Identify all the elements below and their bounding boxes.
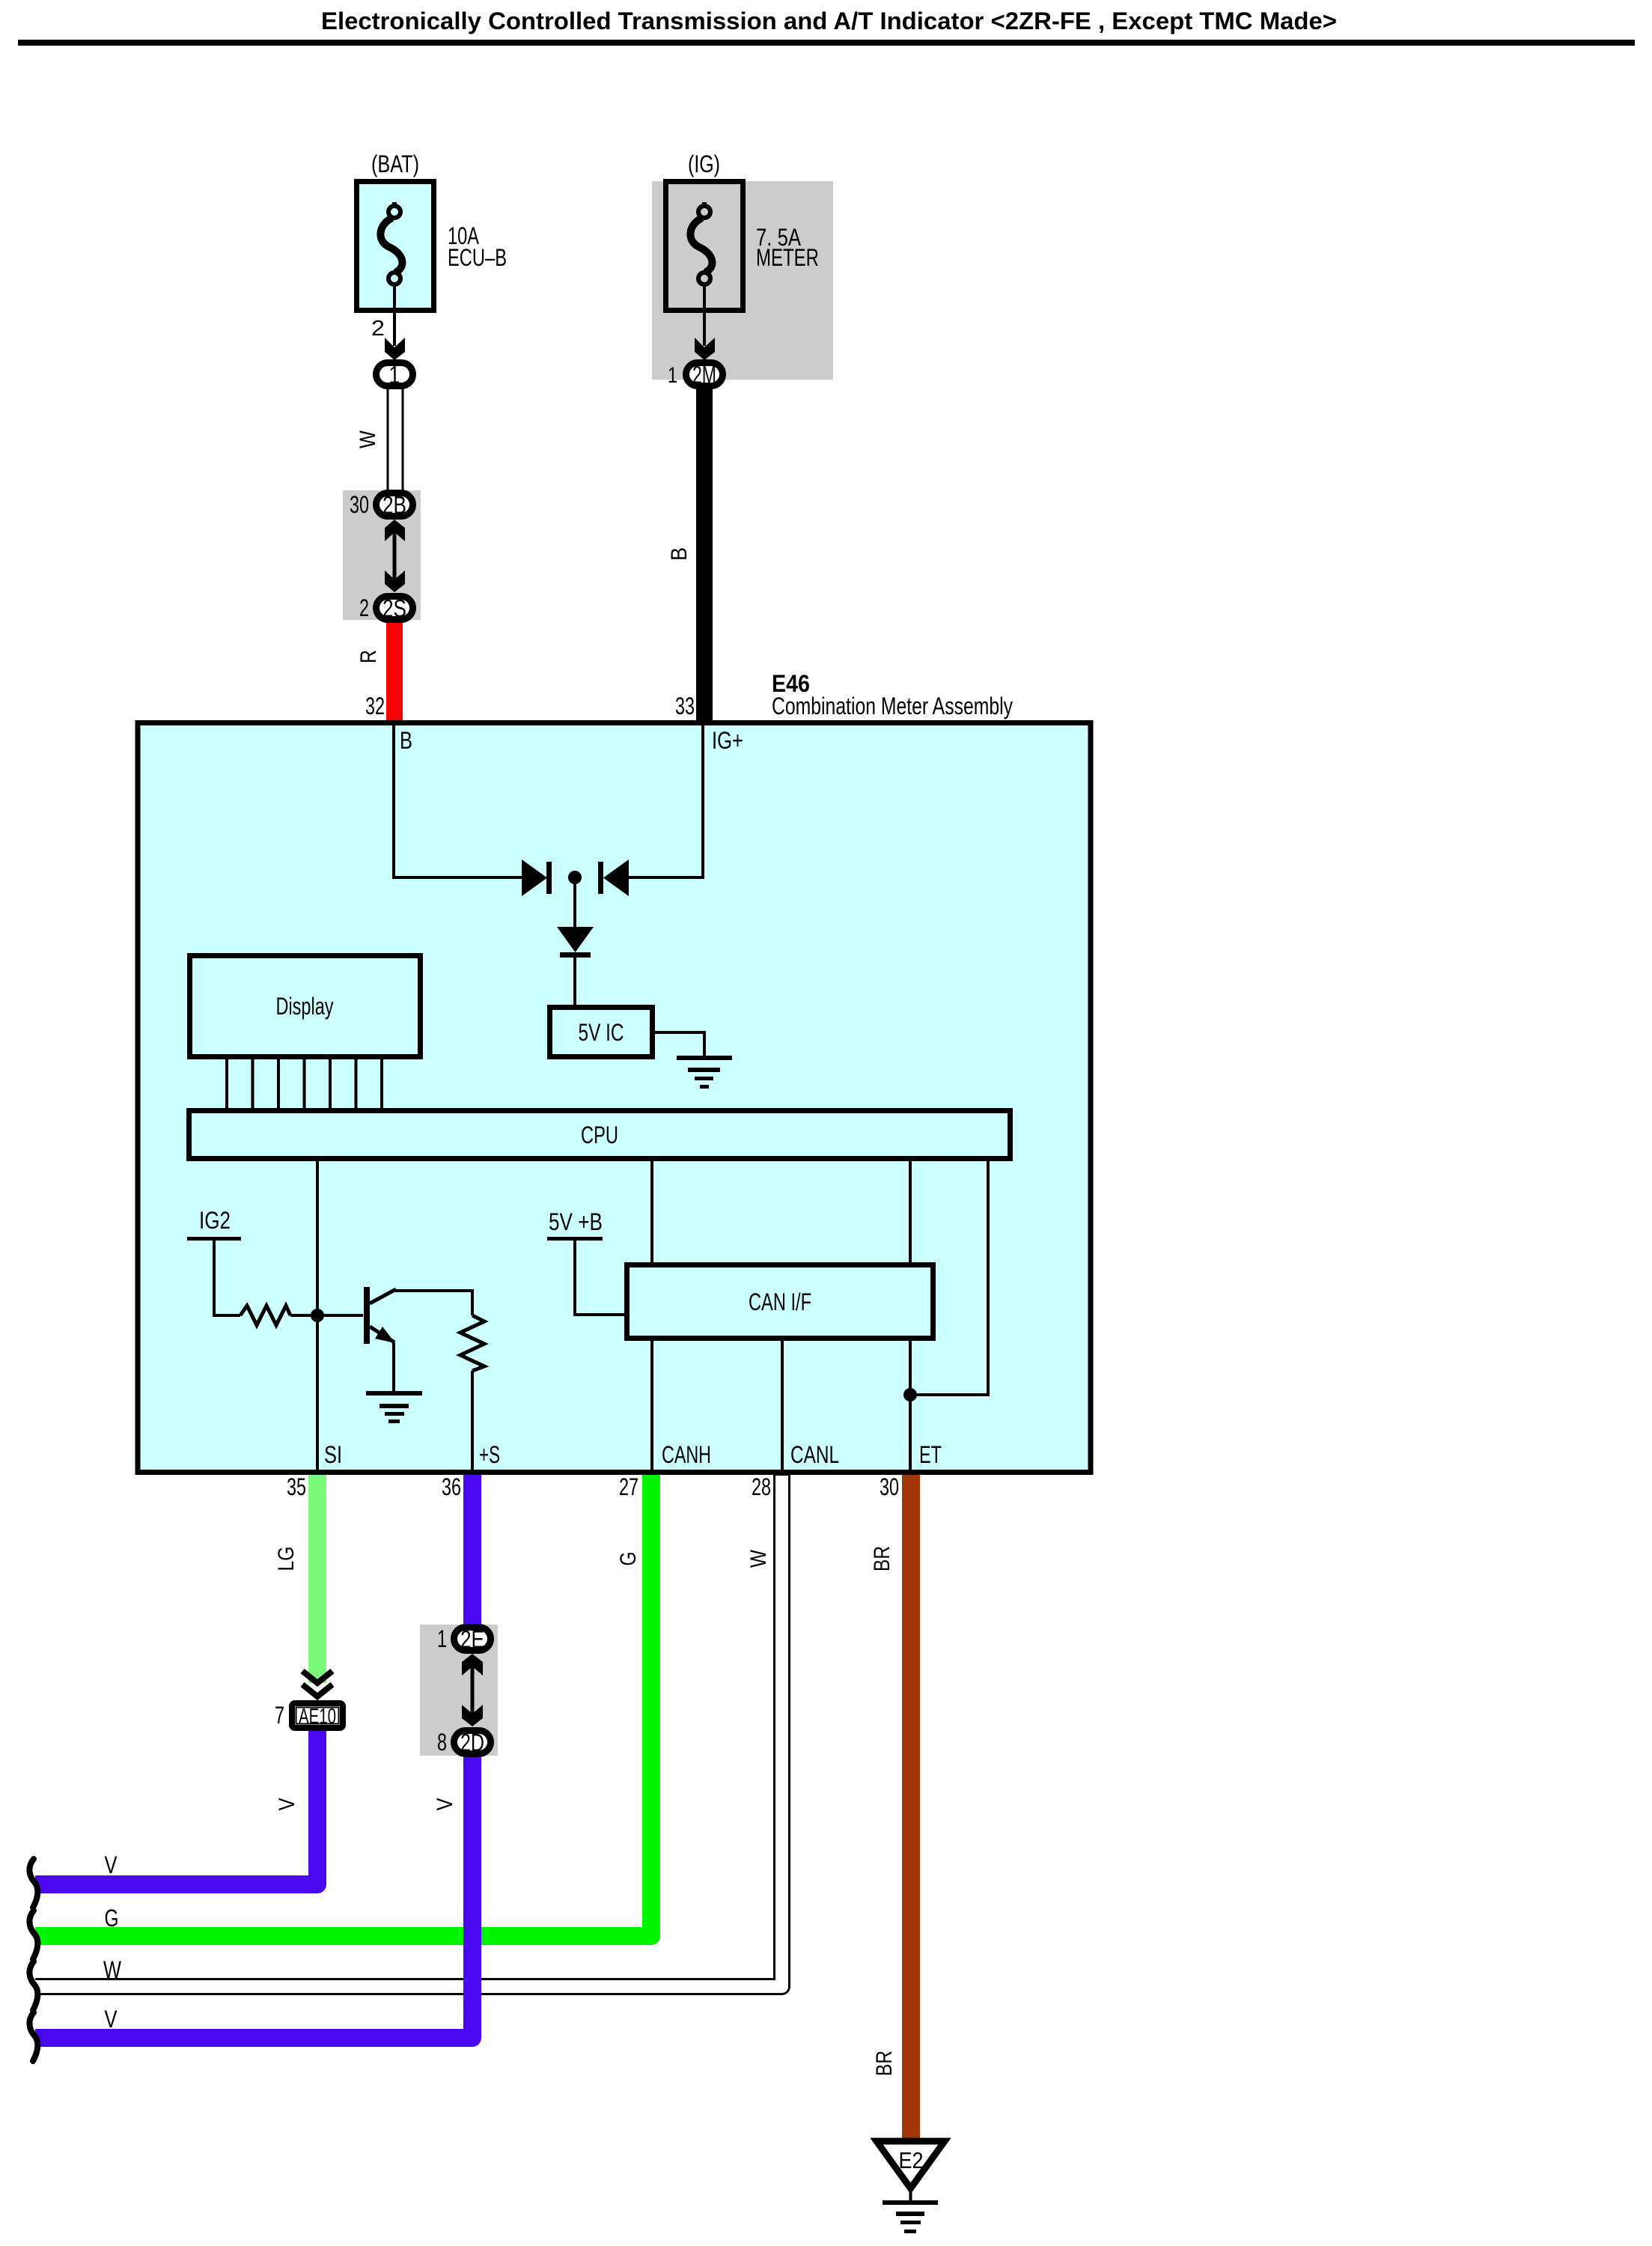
svg-text:Combination Meter Assembly: Combination Meter Assembly	[772, 693, 1013, 719]
wire CAN I/F to pin ET	[909, 1339, 912, 1470]
gray panel behind 2B/2S	[343, 490, 421, 620]
wire CPU right branch	[917, 1161, 988, 1395]
fuse ECU-B (BAT)	[357, 182, 434, 311]
wire V (violet) from AE10 to left edge	[35, 1729, 317, 1884]
svg-text:2E: 2E	[460, 1625, 484, 1653]
resistor R2	[460, 1315, 484, 1371]
svg-text:LG: LG	[274, 1547, 299, 1571]
wire from pin IG+ to diode D2	[627, 725, 703, 877]
wire break squiggle (V)	[29, 1859, 37, 1908]
svg-text:V: V	[433, 1798, 457, 1811]
svg-text:CPU: CPU	[581, 1122, 618, 1148]
node junction dot ET	[903, 1388, 917, 1402]
wire junction to diode D3	[573, 877, 576, 928]
wire 5V +B to CAN I/F	[575, 1241, 627, 1315]
wire node to transistor base	[317, 1314, 363, 1317]
connector 2S	[377, 594, 413, 622]
svg-text:IG2: IG2	[199, 1207, 231, 1234]
svg-text:Electronically Controlled Tran: Electronically Controlled Transmission a…	[321, 7, 1337, 34]
svg-text:2: 2	[371, 317, 385, 341]
connector AE10	[292, 1703, 343, 1729]
connector 1	[377, 361, 413, 389]
svg-text:+S: +S	[479, 1441, 500, 1468]
svg-text:B: B	[400, 727, 412, 754]
wire resistor to node	[290, 1314, 317, 1317]
ground (emitter)	[366, 1391, 422, 1423]
svg-text:5V +B: 5V +B	[549, 1208, 603, 1235]
wire CAN I/F to pin CANL	[781, 1339, 784, 1470]
wire IG2 to resistor R1	[214, 1241, 240, 1315]
svg-text:CAN I/F: CAN I/F	[749, 1288, 811, 1315]
connector 2D	[454, 1729, 491, 1756]
svg-text:V: V	[105, 1851, 118, 1878]
svg-text:SI: SI	[324, 1441, 342, 1468]
svg-text:33: 33	[675, 693, 695, 719]
combination meter assembly box E46	[138, 723, 1091, 1473]
arrow into connector 2M	[695, 338, 715, 360]
svg-text:8: 8	[437, 1729, 447, 1756]
wire SI from CPU to pin SI	[316, 1161, 319, 1470]
connector 2M	[686, 361, 723, 389]
gray panel behind IG fuse and 2M connector	[652, 181, 833, 380]
svg-text:2D: 2D	[460, 1729, 484, 1756]
svg-text:2M: 2M	[692, 361, 716, 389]
ground (5V IC)	[677, 1056, 732, 1089]
wire CPU to CAN I/F (ET)	[909, 1161, 912, 1265]
connector 2B	[377, 491, 413, 519]
svg-text:(BAT): (BAT)	[371, 150, 419, 177]
title: Electronically Controlled Transmission and A/T Indicator	[18, 7, 1635, 46]
wire break squiggle (G)	[29, 1911, 37, 1959]
wire fuse BAT to connector 1	[393, 284, 396, 346]
svg-text:G: G	[105, 1905, 119, 1932]
CPU block	[189, 1111, 1011, 1159]
svg-text:Display: Display	[276, 993, 334, 1020]
svg-text:ECU–B: ECU–B	[448, 244, 507, 271]
svg-text:B: B	[667, 547, 692, 561]
svg-text:IG+: IG+	[712, 727, 743, 754]
node junction dot SI	[311, 1309, 324, 1322]
wire diode D3 to 5V IC	[573, 958, 576, 1008]
svg-text:AE10: AE10	[299, 1705, 336, 1729]
node junction dot	[568, 871, 582, 884]
connector 2E	[454, 1625, 491, 1653]
CAN I/F block	[627, 1265, 933, 1339]
diode D2	[598, 859, 629, 896]
svg-text:27: 27	[619, 1473, 638, 1500]
svg-text:R: R	[356, 650, 381, 663]
wire emitter to ground	[392, 1342, 395, 1393]
ground E2	[877, 2141, 945, 2233]
arrow into connector 1	[385, 338, 405, 360]
fuse METER (IG)	[666, 182, 743, 311]
svg-text:CANL: CANL	[790, 1441, 839, 1468]
svg-text:2S: 2S	[382, 594, 406, 622]
svg-text:1: 1	[389, 361, 400, 389]
node IG2	[187, 1207, 241, 1241]
svg-text:2B: 2B	[382, 491, 406, 519]
svg-text:30: 30	[350, 491, 369, 518]
junction arrows into AE10	[302, 1671, 332, 1696]
svg-text:BR: BR	[872, 2051, 897, 2076]
svg-text:BR: BR	[870, 1546, 894, 1571]
wire resistor R2 to pin +S	[471, 1371, 474, 1470]
svg-text:E2: E2	[899, 2147, 924, 2173]
wire break squiggle (W)	[29, 1962, 37, 2010]
wire CPU to CAN I/F (CANH)	[650, 1161, 653, 1265]
svg-text:ET: ET	[919, 1441, 942, 1468]
diode D3	[557, 927, 594, 958]
gray panel behind 2E/2D	[420, 1625, 498, 1756]
wire from pin B to diode D1	[394, 725, 523, 877]
wire break squiggle (V)	[29, 2012, 37, 2061]
svg-text:W: W	[746, 1549, 771, 1568]
svg-text:1: 1	[437, 1625, 447, 1652]
svg-text:36: 36	[442, 1473, 461, 1500]
svg-text:V: V	[105, 2006, 118, 2033]
junction arrows between 2B and 2S	[385, 520, 405, 592]
resistor R1	[240, 1306, 290, 1325]
display bus wires	[227, 1059, 382, 1110]
wire BR (brown) from pin 30 to E2	[902, 1475, 920, 2139]
svg-text:W: W	[103, 1956, 122, 1983]
svg-text:35: 35	[287, 1473, 306, 1500]
svg-text:28: 28	[752, 1473, 771, 1500]
wire CAN I/F to pin CANH	[650, 1339, 653, 1470]
svg-text:W: W	[356, 430, 380, 448]
wire V (violet) from pin 36 through 2E/2D to left edge	[35, 1475, 472, 2038]
wire B (black) from 2M to pin 33	[696, 382, 713, 725]
wire W (white) from pin 28	[34, 1475, 782, 1987]
svg-text:32: 32	[365, 693, 385, 719]
svg-text:2: 2	[359, 594, 369, 621]
svg-text:1: 1	[668, 363, 677, 388]
junction arrows between 2E and 2D	[462, 1654, 483, 1726]
transistor Q1	[364, 1287, 396, 1344]
wire LG (light green) from pin 35	[308, 1475, 326, 1683]
svg-text:METER: METER	[756, 244, 819, 271]
svg-text:(IG): (IG)	[688, 150, 720, 177]
svg-text:G: G	[616, 1552, 641, 1566]
wire 5V IC to ground	[655, 1032, 704, 1057]
svg-text:V: V	[275, 1798, 299, 1811]
wire collector to resistor R2	[394, 1291, 472, 1315]
svg-text:30: 30	[880, 1473, 899, 1500]
node 5V +B	[547, 1208, 603, 1241]
svg-text:CANH: CANH	[662, 1441, 711, 1468]
wire W (white) from connector 1 to 2B	[387, 383, 404, 490]
wire fuse IG to connector 2M	[703, 284, 706, 346]
svg-text:7: 7	[275, 1702, 284, 1729]
wire R (red) from 2S to pin 32	[386, 618, 403, 725]
wire G (green) from pin 27	[35, 1475, 651, 1936]
display module	[190, 956, 421, 1057]
svg-text:5V IC: 5V IC	[579, 1019, 624, 1046]
diode D1	[522, 859, 552, 896]
regulator U1 5V IC	[550, 1008, 653, 1057]
